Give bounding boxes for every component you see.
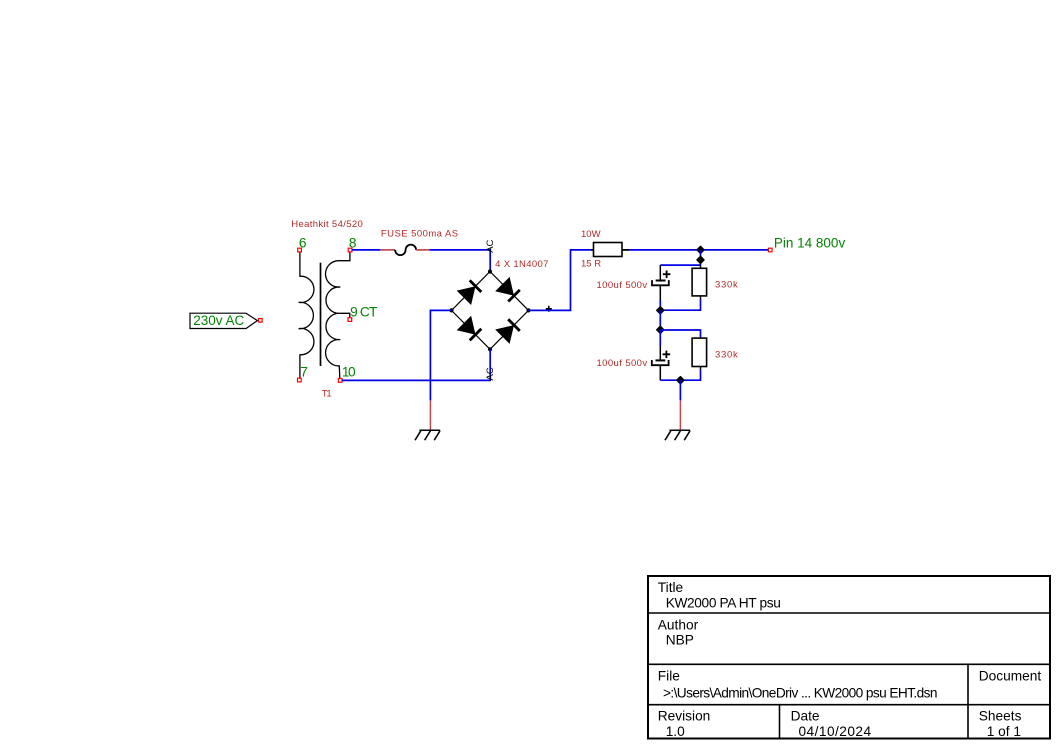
- junction dot 5: [677, 377, 684, 384]
- wire C1 to dot3: [659, 300, 661, 310]
- transformer T1: [291, 219, 378, 400]
- svg-text:KW2000 PA HT psu: KW2000 PA HT psu: [666, 595, 781, 610]
- svg-text:Title: Title: [658, 580, 683, 595]
- svg-text:T1: T1: [322, 388, 332, 399]
- wire dot4 to resistor R3: [660, 330, 700, 338]
- svg-text:Author: Author: [658, 617, 699, 632]
- svg-text:Pin 14 800v: Pin 14 800v: [774, 235, 846, 250]
- wire bridge left to ground: [430, 310, 451, 400]
- svg-text:6: 6: [299, 235, 307, 250]
- svg-text:9 CT: 9 CT: [350, 305, 378, 320]
- svg-text:4 X 1N4007: 4 X 1N4007: [495, 259, 549, 270]
- primary winding: [299, 252, 314, 378]
- ground 2: [665, 400, 690, 440]
- cup plate: [652, 360, 669, 365]
- resistor R1 15R: [581, 229, 630, 270]
- wire pin8 to fuse: [352, 249, 380, 251]
- cup plate: [652, 280, 669, 285]
- svg-text:NBP: NBP: [666, 633, 694, 648]
- diode D2 (top-right edge): [495, 277, 520, 302]
- pin 9 square: [348, 318, 352, 322]
- svg-text:100uf 500v: 100uf 500v: [597, 280, 648, 291]
- wire branch to capacitor C1: [660, 264, 700, 266]
- secondary winding: [326, 252, 350, 379]
- resistor R3 330k: [692, 338, 738, 369]
- svg-text:330k: 330k: [715, 279, 738, 290]
- fuse F1: [380, 229, 458, 256]
- svg-text:230v AC: 230v AC: [193, 313, 244, 328]
- diamond edges: [452, 272, 529, 350]
- pin square Pin 14: [768, 248, 772, 252]
- plus label of bridge: [546, 306, 552, 312]
- top plate: [656, 359, 666, 361]
- svg-text:File: File: [658, 668, 680, 683]
- svg-text:10W: 10W: [581, 229, 601, 240]
- vertex dot right: [526, 308, 530, 312]
- svg-text:Date: Date: [791, 709, 820, 724]
- svg-text:7: 7: [300, 364, 308, 379]
- center tap lead: [340, 313, 350, 317]
- pin 6 square: [298, 248, 302, 252]
- wire dot3 to dot4: [659, 310, 661, 330]
- ground 1: [415, 400, 440, 440]
- svg-text:8: 8: [349, 235, 357, 250]
- junction dot 2: [697, 256, 704, 263]
- svg-text:15 R: 15 R: [581, 258, 601, 269]
- svg-text:AC: AC: [485, 239, 496, 252]
- title block: [648, 576, 1050, 739]
- junction dot 1: [697, 246, 704, 253]
- fuse red lead left: [380, 249, 395, 251]
- wire resistor R1 to output pin: [630, 249, 769, 251]
- svg-text:Document: Document: [979, 668, 1042, 683]
- svg-text:>:\Users\Admin\OneDriv ... KW2: >:\Users\Admin\OneDriv ... KW2000 psu EH…: [663, 686, 937, 701]
- diode D4 (bottom-right edge): [495, 319, 520, 344]
- svg-text:Heathkit 54/520: Heathkit 54/520: [291, 219, 363, 230]
- svg-text:1 of 1: 1 of 1: [987, 724, 1021, 739]
- wire fuse to bridge top: [430, 250, 491, 272]
- diode D3 (left-bottom edge): [457, 316, 482, 341]
- pin 7 square: [298, 378, 302, 382]
- wire dot5 to ground: [679, 380, 681, 400]
- wire R3 bottom to dot5: [660, 370, 700, 381]
- svg-text:330k: 330k: [715, 349, 738, 360]
- top plate: [656, 280, 666, 282]
- svg-text:AC: AC: [485, 367, 496, 380]
- pin square port: [259, 319, 263, 323]
- svg-text:FUSE 500ma AS: FUSE 500ma AS: [381, 229, 459, 240]
- core: [320, 263, 322, 366]
- port 230v AC: [190, 313, 257, 328]
- svg-text:Sheets: Sheets: [979, 709, 1022, 724]
- bridge rectifier 4 X 1N4007: [449, 259, 551, 351]
- wire bridge right to resistor R1: [529, 250, 591, 311]
- svg-text:100uf 500v: 100uf 500v: [597, 358, 648, 369]
- capacitor C2 100uf 500v: [597, 330, 671, 380]
- vertex dot left: [449, 308, 453, 312]
- resistor R2 330k: [692, 265, 738, 300]
- vertex dot bottom: [488, 347, 492, 351]
- fuse red lead right: [416, 249, 430, 251]
- plus sign: [663, 271, 671, 279]
- vertex dot top: [488, 269, 492, 273]
- fuse element: [395, 245, 416, 256]
- svg-text:04/10/2024: 04/10/2024: [799, 724, 872, 739]
- pin 10 square: [338, 379, 342, 383]
- svg-text:1.0: 1.0: [666, 724, 685, 739]
- wire dot1 down to R2: [700, 250, 702, 265]
- pin 8 square: [348, 248, 352, 252]
- junction dot 4: [657, 326, 664, 333]
- svg-text:10: 10: [342, 364, 356, 379]
- svg-text:Revision: Revision: [658, 709, 711, 724]
- wire pin10 to bridge bottom: [342, 349, 490, 380]
- diode D1 (left-top edge): [457, 280, 482, 305]
- plus sign: [663, 351, 671, 359]
- wire R2 bottom to dot3: [660, 299, 700, 310]
- capacitor C1 100uf 500v: [597, 265, 671, 300]
- junction dot 3: [657, 307, 664, 314]
